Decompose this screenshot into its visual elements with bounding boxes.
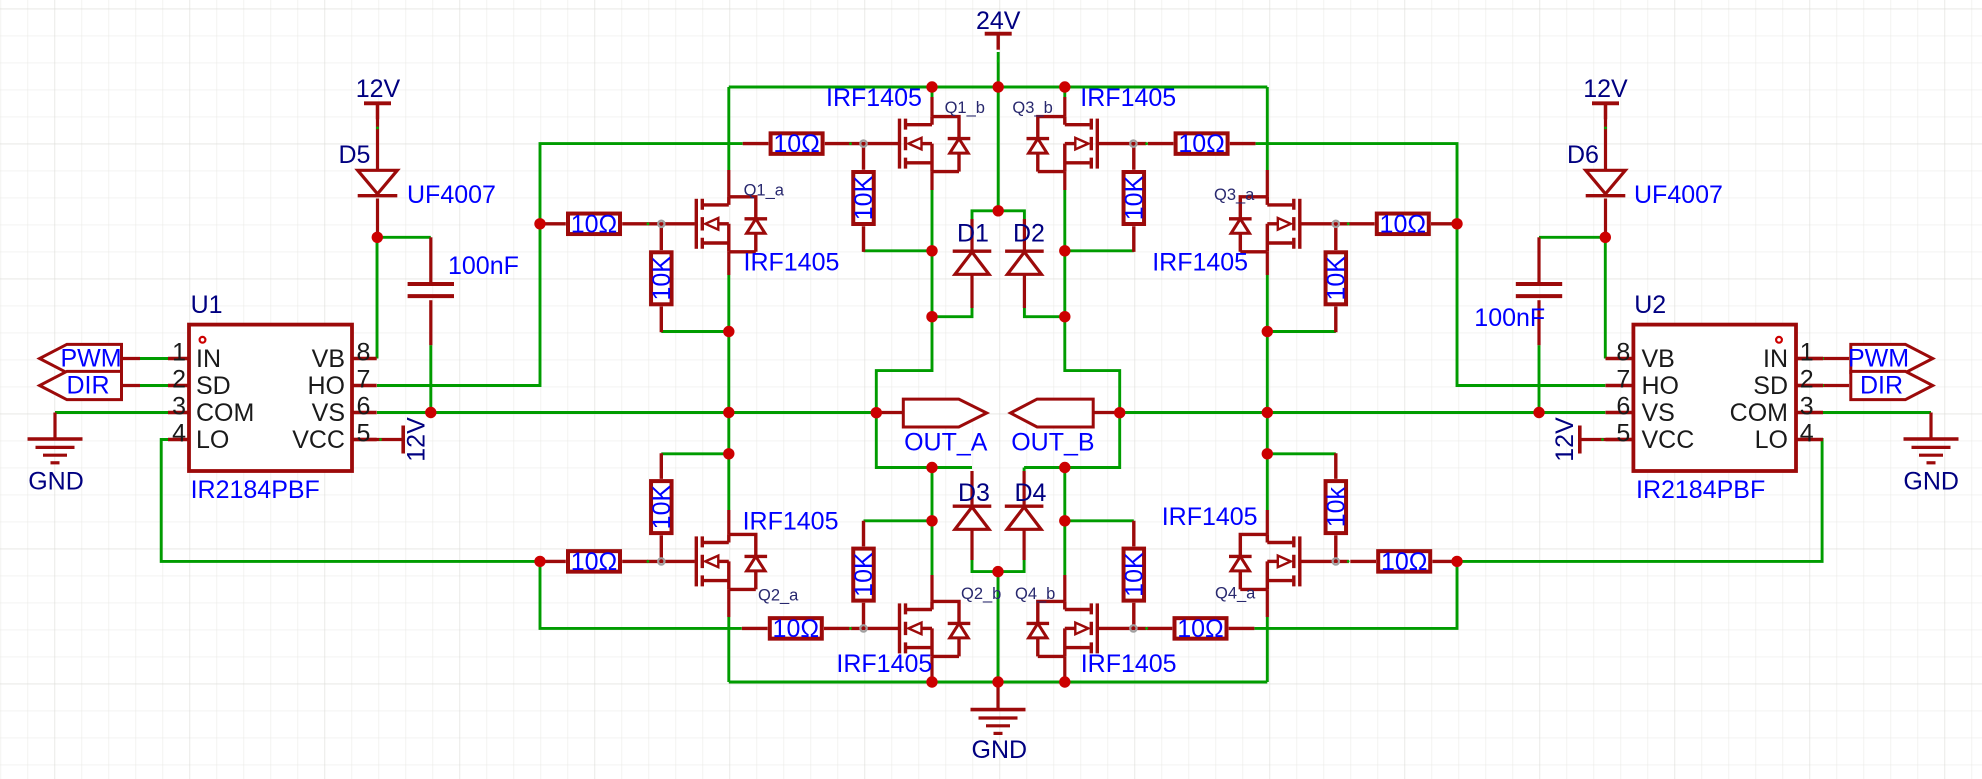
wire U1 HO to R3 gate resistor [377, 144, 743, 386]
junction R16 OUT_A [926, 515, 937, 526]
port OUT_A [903, 399, 986, 427]
capacitor C2 100nF [1516, 284, 1562, 296]
svg-text:10K: 10K [1120, 175, 1148, 220]
pin end dot [1601, 438, 1604, 441]
resistor R12 10K Q3_b gate pulldown [1124, 144, 1145, 252]
junction node OUT_B [1114, 407, 1125, 418]
resistor R8 10R gate Q4_a [1350, 551, 1458, 572]
svg-text:D5: D5 [339, 141, 371, 169]
gate node ring [860, 625, 866, 631]
svg-text:OUT_A: OUT_A [904, 428, 988, 456]
pin end dot [379, 438, 382, 441]
wire U2 HO to R7 gate resistor [1256, 144, 1606, 386]
svg-text:10Ω: 10Ω [1381, 548, 1428, 576]
svg-text:10k: 10k [1322, 486, 1350, 527]
svg-text:IRF1405: IRF1405 [836, 650, 932, 678]
ground GND left [28, 439, 83, 463]
gate node ring [1130, 625, 1136, 631]
U2 IR2184PBF body [1633, 325, 1796, 471]
svg-text:Q3_b: Q3_b [1012, 99, 1052, 117]
svg-text:GND: GND [972, 736, 1028, 764]
resistor R5 10R gate Q2_a [540, 551, 648, 572]
svg-text:12V: 12V [1583, 75, 1628, 103]
junction R11 OUT_A [723, 326, 734, 337]
wire D3/D4 node to bottom rail [997, 572, 1000, 682]
U2 pin 4 stub [1796, 438, 1823, 441]
wire R13 to OUT_B [1267, 330, 1336, 333]
pin Q1_a drain [727, 170, 730, 197]
svg-text:SD: SD [196, 372, 231, 400]
pin D6 cathode [1604, 199, 1607, 238]
wire Q3_b source to OUT_B node [1024, 190, 1120, 468]
svg-text:VS: VS [312, 399, 345, 427]
svg-text:D1: D1 [957, 220, 989, 248]
junction 24V rail [993, 81, 1004, 92]
diode D6 UF4007 [1586, 170, 1626, 195]
svg-text:10K: 10K [648, 256, 676, 301]
pin Q3_b source [1063, 172, 1066, 190]
junction D3 OUT_A [926, 462, 937, 473]
svg-text:Q4_a: Q4_a [1215, 585, 1256, 603]
pin ground left [53, 413, 56, 440]
transistor Q2_b IRF1405 [851, 601, 971, 656]
wire R11 to OUT_A [661, 330, 729, 333]
pin OUT_A port [876, 411, 903, 414]
U1 pin 5 stub [352, 357, 377, 360]
resistor R13 10K Q3_a gate pulldown [1326, 224, 1347, 332]
svg-text:10K: 10K [1120, 552, 1148, 597]
svg-text:IRF1405: IRF1405 [743, 507, 839, 535]
pin D5 cathode [376, 199, 379, 238]
wire LO branch to R6 gate resistor [540, 561, 742, 628]
pin bottom rail to ground [996, 682, 999, 710]
svg-text:IRF1405: IRF1405 [826, 84, 922, 112]
U2 pin 2 stub [1796, 384, 1823, 387]
wire Q1_b drain stub [931, 87, 934, 97]
U1 pin1 marker [200, 337, 206, 343]
wire U1 VB to D5 node [376, 237, 379, 358]
wire top rail right drop [1266, 87, 1269, 170]
transistor Q4_a IRF1405 [1229, 534, 1349, 589]
pin end dot [849, 627, 852, 630]
wire D4 anode to GND node [998, 560, 1024, 572]
pin C1 bottom [429, 300, 432, 345]
svg-text:VCC: VCC [292, 426, 345, 454]
pin D1 anode [970, 274, 973, 308]
svg-text:Q4_b: Q4_b [1015, 585, 1055, 603]
port PWM left [40, 344, 122, 372]
svg-text:IN: IN [1763, 345, 1788, 373]
pin end dot U2 SD [1821, 384, 1824, 387]
pin PWM port right [1796, 357, 1849, 360]
svg-text:10Ω: 10Ω [571, 548, 618, 576]
svg-text:PWM: PWM [60, 345, 121, 373]
svg-text:10Ω: 10Ω [571, 210, 618, 238]
diode D5 UF4007 [358, 170, 398, 195]
svg-text:Q1_a: Q1_a [744, 182, 785, 200]
pin end dot [376, 127, 379, 130]
wire Q1_a source to Q2_a drain [727, 275, 730, 510]
pin C1 top [429, 237, 432, 284]
pin end dot [1347, 560, 1350, 563]
resistor R1 10R gate Q1_a [540, 214, 648, 235]
junction D5/VB/C1 [372, 232, 383, 243]
junction R14 OUT_A [723, 448, 734, 459]
junction R12 source [1059, 245, 1070, 256]
svg-text:D4: D4 [1015, 479, 1047, 507]
port DIR right [1851, 371, 1933, 399]
port PWM right [1851, 344, 1933, 372]
wire Q4_a source to rail [1266, 617, 1269, 682]
junction LO branch R5 [534, 556, 545, 567]
pin D3 cathode [970, 471, 973, 506]
port DIR left [40, 371, 122, 399]
pin C2 top [1537, 237, 1540, 284]
pin Q1_a source [727, 252, 730, 275]
svg-text:UF4007: UF4007 [1634, 181, 1723, 209]
diode D3 [953, 506, 992, 529]
svg-text:1: 1 [1800, 339, 1814, 367]
svg-text:8: 8 [1616, 339, 1630, 367]
pin Q2_b source [930, 656, 933, 682]
pin Q2_b drain [930, 575, 933, 601]
pin D5 anode from 12V [376, 103, 379, 170]
pin D6 anode from 12V [1604, 103, 1607, 170]
transistor Q1_b IRF1405 [851, 117, 971, 172]
resistor R3 10R gate Q1_b [743, 133, 851, 154]
resistor R7a 10R gate Q3_a [1349, 214, 1457, 235]
svg-text:DIR: DIR [66, 372, 109, 400]
svg-text:7: 7 [1616, 366, 1630, 394]
wire R12 to Q3_b source [1065, 249, 1134, 252]
port OUT_B [1011, 399, 1094, 427]
svg-text:D2: D2 [1013, 220, 1045, 248]
svg-text:D6: D6 [1567, 141, 1599, 169]
U1 pin 6 stub [352, 384, 377, 387]
svg-text:12V: 12V [1551, 417, 1579, 462]
svg-text:10K: 10K [850, 552, 878, 597]
svg-text:PWM: PWM [1848, 345, 1909, 373]
pin D1 cathode [970, 219, 973, 251]
U2 pin 6 stub [1606, 411, 1634, 414]
pin Q3_a source [1266, 252, 1269, 275]
wire LO branch to R9 gate resistor [1255, 561, 1458, 628]
resistor R11 10K Q1_a gate pulldown [651, 224, 672, 332]
wire R15 to OUT_B [1267, 452, 1336, 455]
pin end dot U2 IN [1821, 357, 1824, 360]
pin Q3_a drain [1266, 170, 1269, 197]
svg-text:VB: VB [1642, 345, 1675, 373]
svg-text:5: 5 [357, 420, 371, 448]
svg-text:2: 2 [1800, 366, 1814, 394]
pin Q4_b drain [1063, 575, 1066, 601]
svg-text:UF4007: UF4007 [407, 181, 496, 209]
wire U2 VB to D6 node [1604, 237, 1607, 358]
resistor R6 10R gate Q2_b [742, 618, 850, 639]
svg-text:COM: COM [196, 399, 254, 427]
wire C1 bottom to VS [429, 345, 432, 412]
svg-text:24V: 24V [976, 7, 1021, 35]
junction C1/VS [425, 407, 436, 418]
svg-text:DIR: DIR [1860, 372, 1903, 400]
resistor R14 10K Q2_a gate pull [651, 453, 672, 561]
gate node ring [1333, 558, 1339, 564]
pin D3 anode [970, 529, 973, 560]
junction D2 OUT_B [1059, 311, 1070, 322]
svg-text:100nF: 100nF [1474, 304, 1545, 332]
pin end dot [1347, 222, 1350, 225]
svg-text:IRF1405: IRF1405 [1162, 503, 1258, 531]
svg-text:OUT_B: OUT_B [1011, 428, 1094, 456]
svg-text:VB: VB [312, 345, 345, 373]
svg-text:3: 3 [172, 393, 186, 421]
svg-text:Q2_a: Q2_a [758, 587, 799, 605]
pin Q3_b drain [1063, 97, 1066, 117]
svg-text:IR2184PBF: IR2184PBF [1636, 476, 1765, 504]
pin end dot [997, 60, 1000, 63]
svg-text:10Ω: 10Ω [1380, 210, 1427, 238]
wire U2 LO to R8 gate resistor [1457, 440, 1822, 562]
pin DIR port left [122, 384, 141, 387]
svg-text:10Ω: 10Ω [773, 130, 820, 158]
wire top rail 24V [729, 86, 1268, 89]
svg-text:Q3_a: Q3_a [1214, 186, 1255, 204]
svg-text:4: 4 [172, 420, 186, 448]
svg-text:LO: LO [196, 426, 229, 454]
U2 pin 3 stub [1796, 411, 1823, 414]
svg-text:SD: SD [1753, 372, 1788, 400]
U2 pin 1 stub [1796, 357, 1823, 360]
pin end dot [647, 222, 650, 225]
pin D2 cathode [1023, 219, 1026, 251]
junction Q3_b drain rail [1059, 81, 1070, 92]
junction R10 source [926, 245, 937, 256]
wire Q2_a source to rail [727, 617, 730, 682]
svg-text:10K: 10K [850, 175, 878, 220]
wire PWM to U1 IN [140, 357, 168, 360]
junction LO branch R8 [1451, 556, 1462, 567]
resistor R10 10K Q1_b gate pulldown [853, 144, 874, 252]
pin Q2_a source [727, 589, 730, 617]
pin D4 anode [1022, 529, 1025, 560]
svg-text:7: 7 [357, 366, 371, 394]
svg-text:4: 4 [1800, 420, 1814, 448]
svg-text:IN: IN [196, 345, 221, 373]
wire OUT_B to Q4_b drain [1063, 468, 1066, 576]
ground GND right [1904, 439, 1959, 463]
U1 pin 7 stub [352, 411, 377, 414]
svg-text:1: 1 [172, 339, 186, 367]
svg-text:GND: GND [1903, 468, 1959, 496]
power flag 12V at U2 VCC [1578, 426, 1582, 454]
wire Q3_b drain stub [1063, 87, 1066, 97]
svg-text:12V: 12V [403, 417, 431, 462]
svg-text:GND: GND [28, 468, 84, 496]
U1 pin 8 stub [352, 438, 377, 441]
junction R17 OUT_B [1059, 515, 1070, 526]
resistor R17 10K Q4_b gate pull [1124, 521, 1145, 629]
gate node ring [1333, 221, 1339, 227]
U1 pin 1 stub [168, 357, 189, 360]
pin U2 VCC to 12V flag [1581, 438, 1633, 441]
wire OUT_B node to U2 VS [1120, 411, 1606, 414]
junction D1 OUT_A [926, 311, 937, 322]
wire D3 anode to GND node [972, 560, 998, 572]
wire 24V to top rail [997, 52, 1000, 87]
pin U1 VCC to 12V flag [352, 438, 402, 441]
diode D2 [1005, 251, 1044, 274]
junction D3/D4 GND [992, 566, 1003, 577]
svg-text:3: 3 [1800, 393, 1814, 421]
power flag 24V [985, 34, 1012, 50]
svg-text:IRF1405: IRF1405 [1152, 249, 1248, 277]
pin PWM port left [122, 357, 141, 360]
wire OUT_B branch to D4 [1023, 468, 1026, 472]
wire R14 to OUT_A [661, 452, 729, 455]
junction Q2_b source rail [926, 676, 937, 687]
junction C2/VS [1533, 407, 1544, 418]
wire R16 to OUT_A [864, 519, 933, 522]
pin OUT_B port [1093, 411, 1120, 414]
U2 pin1 marker [1776, 337, 1782, 343]
power flag 12V right [1592, 103, 1619, 119]
op-amp U1 IR2184PBF body [189, 325, 352, 471]
pin end dot [849, 142, 852, 145]
pin end dot [1604, 127, 1607, 130]
U1 pin 2 stub [168, 384, 189, 387]
junction VS crossing OUT_B column [1262, 407, 1273, 418]
wire R17 to OUT_B [1065, 519, 1134, 522]
pin DIR port right [1796, 384, 1849, 387]
junction VS crossing OUT_A column [723, 407, 734, 418]
svg-text:Q2_b: Q2_b [961, 585, 1001, 603]
svg-text:8: 8 [357, 339, 371, 367]
wire Q1_b source to OUT_A node [876, 190, 972, 468]
junction Q1_b drain rail [926, 81, 937, 92]
svg-text:10Ω: 10Ω [1178, 130, 1225, 158]
wire D6 node to C2 top [1539, 236, 1605, 239]
svg-text:U1: U1 [191, 291, 223, 319]
pin C2 bottom [1537, 300, 1540, 345]
junction D1/D2 24V [993, 205, 1004, 216]
U2 pin 8 stub [1606, 357, 1634, 360]
wire top rail left drop [727, 87, 730, 170]
transistor Q2_a IRF1405 [647, 534, 767, 589]
U2 pin 5 stub [1606, 438, 1634, 441]
resistor R15 10k Q4_a gate pull [1326, 453, 1347, 561]
svg-text:IR2184PBF: IR2184PBF [191, 476, 320, 504]
power flag 12V left [364, 103, 391, 119]
svg-text:D3: D3 [958, 479, 990, 507]
wire U1 VS to OUT_A node [377, 411, 876, 414]
pin ground right [1929, 413, 1932, 440]
wire D5 node to C1 top [377, 236, 431, 239]
pin Q4_a drain [1266, 510, 1269, 534]
svg-text:HO: HO [1642, 372, 1680, 400]
junction HO branch R1 [534, 218, 545, 229]
svg-text:LO: LO [1755, 426, 1788, 454]
pin Q4_b source [1063, 656, 1066, 682]
pin Q1_b source [930, 172, 933, 190]
U1 pin 4 stub [168, 438, 189, 441]
power flag 12V at U1 VCC [401, 426, 405, 454]
svg-text:6: 6 [1616, 393, 1630, 421]
resistor R9 10R gate Q4_b [1147, 618, 1255, 639]
junction R15 OUT_B [1262, 448, 1273, 459]
wire D1 anode to OUT_A [932, 308, 972, 317]
pin Q2_a drain [727, 510, 730, 534]
capacitor C1 100nF [408, 284, 454, 296]
svg-text:IRF1405: IRF1405 [1080, 84, 1176, 112]
svg-text:100nF: 100nF [448, 252, 519, 280]
wire R10 to Q1_b source [864, 249, 933, 252]
wire C2 bottom to VS [1538, 345, 1541, 412]
wire OUT_A to Q2_b drain [931, 468, 934, 576]
gate node ring [1130, 140, 1136, 146]
svg-text:U2: U2 [1634, 291, 1666, 319]
diode D1 [953, 251, 992, 274]
junction Q4_b source rail [1059, 676, 1070, 687]
junction node OUT_A [871, 407, 882, 418]
gate node ring [658, 221, 664, 227]
wire U2 COM to ground [1822, 411, 1931, 414]
junction D4 OUT_B [1059, 462, 1070, 473]
svg-text:10Ω: 10Ω [773, 615, 820, 643]
svg-text:IRF1405: IRF1405 [744, 249, 840, 277]
svg-text:2: 2 [172, 366, 186, 394]
svg-text:COM: COM [1730, 399, 1788, 427]
gate node ring [658, 558, 664, 564]
svg-text:5: 5 [1616, 420, 1630, 448]
svg-text:HO: HO [308, 372, 346, 400]
svg-text:10Ω: 10Ω [1177, 615, 1224, 643]
wire DIR to U1 SD [140, 384, 168, 387]
gate node ring [860, 140, 866, 146]
wire D2 anode to OUT_B [1024, 308, 1064, 317]
svg-text:Q1_b: Q1_b [945, 99, 985, 117]
junction HO branch R7a [1451, 218, 1462, 229]
wire U1 COM to ground [55, 411, 170, 414]
wire 24V node to D1 cathode [972, 211, 998, 219]
svg-text:12V: 12V [356, 75, 401, 103]
svg-text:VS: VS [1642, 399, 1675, 427]
resistor R7 10R gate Q3_b [1148, 133, 1256, 154]
svg-text:VCC: VCC [1642, 426, 1695, 454]
transistor Q3_b IRF1405 [1027, 117, 1147, 172]
wire Q3_a source to Q4_a drain [1266, 275, 1269, 510]
pin end dot [1145, 142, 1148, 145]
transistor Q1_a IRF1405 [647, 197, 767, 252]
svg-text:IRF1405: IRF1405 [1081, 650, 1177, 678]
wire 24V rail to D1/D2 node [997, 87, 1000, 211]
junction R13 OUT_B [1262, 326, 1273, 337]
wire 24V node to D2 cathode [998, 211, 1024, 219]
ground GND bottom [971, 710, 1026, 734]
diode D4 [1005, 506, 1044, 529]
svg-text:10K: 10K [648, 485, 676, 530]
svg-text:10K: 10K [1322, 256, 1350, 301]
wire bottom rail GND [729, 681, 1268, 684]
wire U1 LO to R5 gate resistor [161, 440, 540, 562]
transistor Q3_a IRF1405 [1229, 197, 1349, 252]
pin D2 anode [1023, 274, 1026, 308]
pin Q4_a source [1266, 589, 1269, 617]
resistor R16 10K Q2_b gate pull [853, 521, 874, 629]
U2 pin 7 stub [1606, 384, 1634, 387]
junction GND rail [992, 676, 1003, 687]
transistor Q4_b IRF1405 [1027, 601, 1147, 656]
U1 pin 3 stub [168, 411, 189, 414]
